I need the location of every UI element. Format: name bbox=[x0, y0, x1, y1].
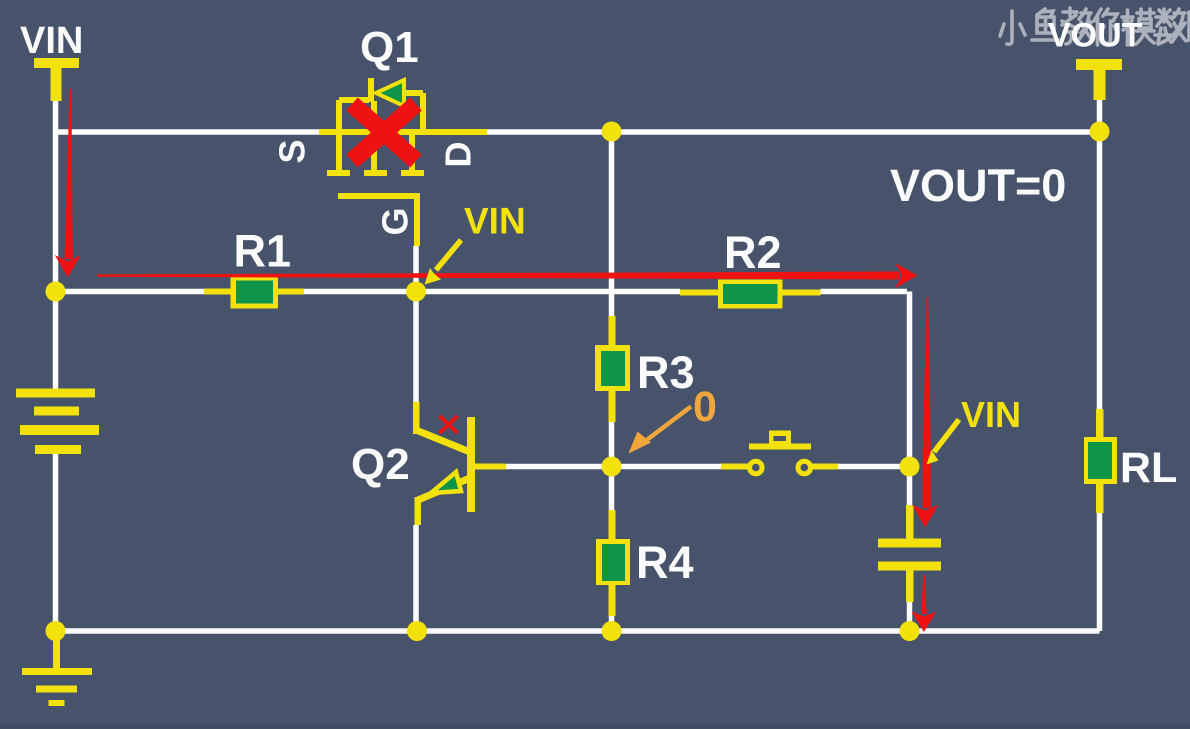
wire: R3 to node bbox=[609, 420, 615, 467]
node dot top rail R3 branch bbox=[602, 122, 622, 142]
wire: R1-R2 row horizontal bbox=[56, 289, 908, 295]
resistor R1 bbox=[204, 276, 304, 309]
Q1 gate plate and lead bbox=[338, 196, 417, 246]
wire: left rail vertical bbox=[53, 98, 59, 631]
wire: Q2 base to node bbox=[506, 464, 612, 470]
node dot bottom R4 bbox=[602, 621, 622, 641]
svg-text:RL: RL bbox=[1120, 444, 1177, 492]
svg-text:R3: R3 bbox=[637, 347, 695, 398]
wire: cap branch white bits bbox=[907, 467, 913, 632]
capacitor C1 bbox=[878, 505, 941, 602]
node dot bottom Q2 bbox=[407, 621, 427, 641]
svg-text:R2: R2 bbox=[724, 227, 782, 278]
node dot cap top bbox=[900, 457, 920, 477]
node dot VIN (gate) bbox=[406, 282, 426, 302]
power terminal VOUT bbox=[1076, 59, 1122, 100]
node dot left R1 row bbox=[46, 282, 66, 302]
resistor R2 bbox=[680, 280, 821, 309]
svg-text:VIN: VIN bbox=[20, 20, 83, 62]
watermark 小鱼教你模数 bbox=[1000, 8, 1190, 45]
wire: top rail horizontal bbox=[53, 129, 1102, 135]
svg-text:VOUT=0: VOUT=0 bbox=[890, 160, 1066, 211]
svg-text:VIN: VIN bbox=[961, 394, 1021, 435]
svg-text:VIN: VIN bbox=[464, 201, 526, 242]
wire: bottom rail bbox=[56, 628, 1100, 634]
orange arrow to node 0 bbox=[644, 407, 691, 443]
svg-text:S: S bbox=[272, 139, 313, 163]
node dot top rail right bbox=[1090, 122, 1110, 142]
svg-text:R1: R1 bbox=[234, 226, 292, 277]
power terminal VIN bbox=[34, 58, 79, 101]
wire: node to R4 bbox=[609, 467, 615, 513]
battery V1 bbox=[16, 389, 99, 455]
node dot bottom left bbox=[46, 621, 66, 641]
svg-text:G: G bbox=[375, 207, 416, 235]
red X over Q1 bbox=[352, 104, 416, 161]
wire: R2 right corner down to cap node bbox=[907, 292, 913, 467]
Q1 body diode cathode bar bbox=[368, 78, 374, 102]
Q1 body diode triangle bbox=[376, 80, 404, 106]
wire: R3 branch from top rail bbox=[609, 132, 615, 330]
resistor R3 bbox=[595, 316, 630, 422]
Q1 channel bars bbox=[327, 170, 424, 176]
resistor RL bbox=[1084, 409, 1117, 513]
red arrow: horizontal along R1-R2 row bbox=[97, 272, 899, 280]
wire: button row segments bbox=[612, 464, 910, 470]
resistor R4 bbox=[596, 510, 630, 616]
push button S1 bbox=[721, 431, 838, 474]
red arrow: cap to bottom node bbox=[921, 575, 926, 614]
transistor Q2 (NPN) bbox=[413, 402, 506, 525]
wire: R4 to bottom rail bbox=[609, 615, 615, 631]
svg-text:Q2: Q2 bbox=[351, 440, 410, 489]
svg-text:Q1: Q1 bbox=[360, 23, 419, 72]
red arrow: VIN down left rail bbox=[65, 89, 73, 259]
small red x over Q2 bbox=[440, 416, 458, 433]
svg-text:0: 0 bbox=[693, 383, 717, 431]
yellow callout arrow VIN (cap node) bbox=[934, 420, 959, 453]
yellow callout arrow VIN (gate node) bbox=[436, 240, 461, 270]
wire: gate/Q2 branch vertical bbox=[413, 246, 419, 631]
ground bbox=[22, 638, 92, 706]
red arrow: down to capacitor bbox=[923, 297, 931, 508]
wire: right rail vertical bbox=[1097, 100, 1103, 631]
transistor Q1 (PMOS) bbox=[319, 93, 487, 171]
svg-text:D: D bbox=[438, 142, 479, 168]
svg-text:R4: R4 bbox=[636, 537, 694, 588]
node dot R3/R4 bbox=[602, 457, 622, 477]
node dot bottom cap bbox=[900, 621, 920, 641]
